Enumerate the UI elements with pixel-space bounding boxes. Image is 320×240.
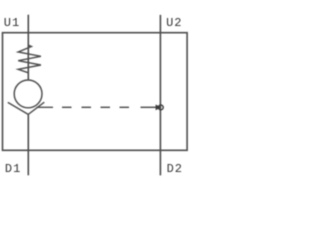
svg-text:D2: D2	[167, 162, 183, 176]
svg-text:U1: U1	[4, 16, 20, 30]
svg-text:U2: U2	[166, 16, 182, 30]
svg-text:D1: D1	[5, 162, 21, 176]
